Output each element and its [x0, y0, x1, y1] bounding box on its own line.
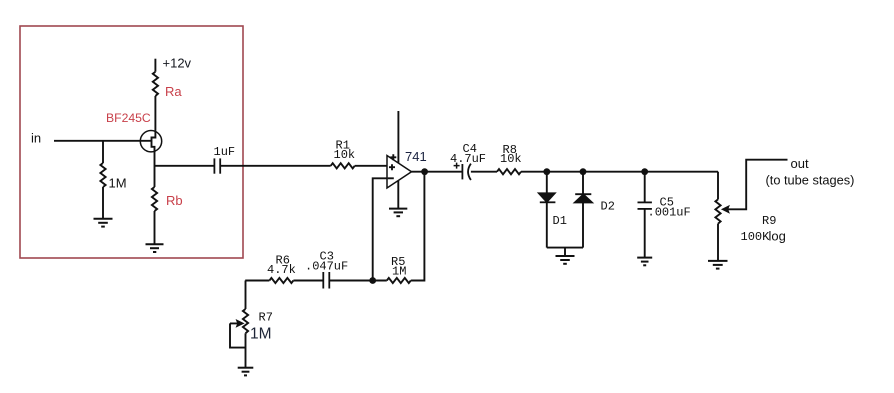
wire op-amp V+ supply	[397, 111, 399, 163]
svg-text:D2: D2	[601, 199, 615, 213]
svg-text:in: in	[31, 131, 41, 146]
wire R8 to corner at R9	[521, 171, 718, 173]
wire R6 to C3	[293, 280, 323, 282]
resistor R5	[387, 255, 411, 283]
wire C4 to R8	[471, 171, 497, 173]
wire source down and to cap	[155, 152, 215, 187]
wire R7 wiper loop	[230, 320, 246, 348]
capacitor C5 .001uF	[638, 172, 691, 258]
svg-text:D1: D1	[553, 214, 567, 228]
wire Ra to drain	[154, 96, 156, 131]
ground R7	[238, 368, 254, 376]
wire op-amp output	[412, 171, 463, 173]
wire output junction down to R5	[412, 172, 425, 281]
diode D2	[575, 172, 615, 248]
wire cap to R1	[220, 165, 331, 167]
svg-text:(to tube stages): (to tube stages)	[766, 173, 855, 188]
wire R1 to op-amp	[355, 165, 387, 167]
svg-text:1uF: 1uF	[214, 145, 236, 159]
svg-text:.047uF: .047uF	[305, 259, 348, 273]
svg-text:1M: 1M	[109, 176, 127, 191]
resistor Ra	[153, 72, 183, 99]
resistor R1	[331, 139, 355, 169]
ground input	[94, 219, 113, 227]
wire C3 to junction	[329, 280, 387, 282]
node junction D2	[580, 168, 587, 175]
op-amp U1 741	[387, 149, 427, 188]
wire feedback row left	[245, 280, 269, 282]
ground C5	[637, 258, 652, 266]
svg-text:10k: 10k	[334, 148, 356, 162]
wire R5 to corner	[411, 280, 425, 282]
svg-text:100K: 100K	[741, 230, 771, 244]
svg-text:R9: R9	[762, 214, 776, 228]
transistor Q1 BF245C	[106, 111, 162, 152]
wire input to gate	[54, 140, 152, 142]
capacitor C3 .047uF	[305, 249, 348, 288]
ground Rb	[146, 244, 164, 252]
svg-text:log: log	[769, 228, 786, 243]
svg-text:BF245C: BF245C	[106, 111, 151, 125]
potentiometer R9	[715, 172, 785, 261]
svg-text:741: 741	[405, 149, 427, 164]
svg-text:R7: R7	[259, 310, 273, 324]
ground diodes	[556, 256, 575, 264]
wire R9 wiper to out	[722, 160, 788, 213]
capacitor C2 1uF	[214, 145, 236, 174]
svg-text:out: out	[791, 156, 809, 171]
wire drain to Ra	[154, 59, 156, 72]
wire to diode ground	[564, 248, 566, 256]
node junction D1	[543, 168, 550, 175]
wire Rb to ground	[154, 211, 156, 244]
resistor R8	[497, 143, 522, 174]
svg-text:Ra: Ra	[165, 84, 182, 99]
resistor 1M input	[100, 141, 126, 219]
resistor R6	[267, 254, 296, 284]
wire diode bottom connector	[547, 247, 583, 249]
svg-text:+12v: +12v	[163, 56, 192, 71]
potentiometer R7	[243, 281, 273, 368]
ground op-amp	[389, 209, 407, 217]
svg-text:Rb: Rb	[166, 193, 183, 208]
node output junction	[421, 168, 428, 175]
svg-text:1M: 1M	[250, 325, 272, 342]
resistor Rb	[152, 187, 183, 211]
svg-text:4.7k: 4.7k	[267, 263, 296, 277]
svg-text:1M: 1M	[392, 264, 406, 278]
diode D1	[539, 172, 567, 248]
node junction C5	[641, 168, 648, 175]
capacitor C4 4.7uF	[450, 142, 486, 180]
svg-text:10k: 10k	[500, 152, 522, 166]
ground R9	[708, 261, 728, 269]
svg-text:4.7uF: 4.7uF	[450, 152, 486, 166]
wire inverting input to feedback	[373, 178, 387, 280]
wire op-amp V- to ground	[397, 181, 399, 209]
node feedback junction	[369, 277, 376, 284]
svg-text:.001uF: .001uF	[648, 205, 691, 219]
red enclosure box	[20, 26, 243, 258]
